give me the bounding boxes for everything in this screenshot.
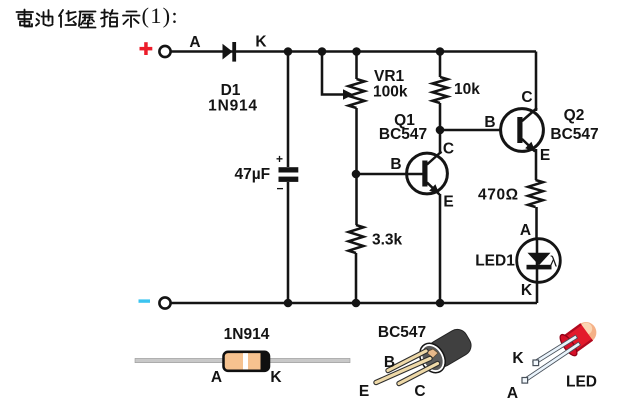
svg-text:D1: D1 xyxy=(221,82,241,99)
resistor 3.3k xyxy=(349,225,364,253)
junction node VR1 top xyxy=(352,47,361,56)
svg-text:B: B xyxy=(384,354,395,371)
resistor VR1 xyxy=(349,79,365,108)
svg-text:K: K xyxy=(512,350,524,367)
svg-text:A: A xyxy=(520,222,531,239)
junction node Q1 collector / Q2 base xyxy=(436,126,445,135)
svg-text:47µF: 47µF xyxy=(235,166,271,183)
LED1 xyxy=(517,239,561,283)
junction node bottom Q1 emitter xyxy=(436,299,445,308)
junction node top cap xyxy=(284,47,293,56)
wire Q1 collector xyxy=(439,130,442,154)
svg-text:LED1: LED1 xyxy=(475,253,515,270)
svg-text:C: C xyxy=(414,383,425,400)
svg-text:100k: 100k xyxy=(373,84,408,101)
wire LED K to bottom rail xyxy=(536,281,539,303)
wire VR1 to 3.3k xyxy=(355,108,358,225)
plus terminal label xyxy=(140,42,153,55)
wire 470 to LED xyxy=(535,207,538,240)
svg-text:BC547: BC547 xyxy=(550,126,598,143)
wire right vertical to Q2 collector xyxy=(535,52,538,112)
wire node to Q2 base xyxy=(440,129,501,132)
svg-text:A: A xyxy=(211,369,222,386)
svg-text:B: B xyxy=(390,156,401,173)
photo 1N914 diode xyxy=(135,352,350,371)
wire 10k to node xyxy=(439,103,442,130)
wire 3.3k to bottom rail xyxy=(355,253,358,303)
svg-text:K: K xyxy=(521,282,533,299)
svg-text:VR1: VR1 xyxy=(374,68,405,85)
svg-text:3.3k: 3.3k xyxy=(372,232,403,249)
resistor 10k xyxy=(433,77,448,103)
svg-text:Q2: Q2 xyxy=(564,107,585,124)
svg-text:C: C xyxy=(521,89,532,106)
photo LED xyxy=(522,316,602,383)
minus terminal label xyxy=(139,299,151,302)
svg-text:E: E xyxy=(540,147,550,164)
diode D1 xyxy=(223,42,237,62)
capacitor C1 47uF xyxy=(279,167,299,182)
svg-text:BC547: BC547 xyxy=(378,324,426,341)
transistor Q2 xyxy=(501,108,544,152)
VR1 wiper arrowhead xyxy=(343,89,354,99)
svg-text:K: K xyxy=(255,34,267,51)
svg-text:10k: 10k xyxy=(454,81,480,98)
wire Q1 base xyxy=(356,173,423,176)
resistor 470ohm xyxy=(528,180,543,207)
wire top rail xyxy=(171,50,536,53)
terminal circle top xyxy=(159,46,170,57)
wire capacitor branch top xyxy=(287,52,290,168)
junction node bottom cap xyxy=(284,299,293,308)
terminal circle bottom xyxy=(159,297,170,308)
svg-text:470Ω: 470Ω xyxy=(478,187,519,204)
svg-text:1N914: 1N914 xyxy=(224,326,270,343)
title 電池低壓指示(1): xyxy=(17,10,140,28)
junction node wiper xyxy=(318,47,327,56)
svg-text:+: + xyxy=(276,152,283,166)
junction node Q1 base xyxy=(352,170,361,179)
svg-text:A: A xyxy=(507,385,518,402)
svg-text:E: E xyxy=(443,194,453,211)
transistor Q1 xyxy=(407,152,448,195)
wire VR1 branch xyxy=(355,52,358,80)
wire Q2 emitter to 470 xyxy=(535,149,538,180)
photo BC547 transistor xyxy=(376,324,476,384)
svg-text:1N914: 1N914 xyxy=(208,98,258,115)
junction node 10k top xyxy=(436,47,445,56)
svg-text:A: A xyxy=(189,34,200,51)
svg-text:C: C xyxy=(443,141,454,158)
svg-text:LED: LED xyxy=(566,374,597,391)
wire capacitor branch bottom xyxy=(287,182,290,303)
wire VR1 wiper xyxy=(322,52,344,95)
junction node bottom 3.3k xyxy=(352,299,361,308)
svg-text:K: K xyxy=(270,369,282,386)
svg-text:λ: λ xyxy=(550,254,558,271)
wire Q1 emitter xyxy=(439,194,442,303)
svg-text:E: E xyxy=(359,383,369,400)
wire bottom rail xyxy=(171,302,537,305)
wire 10k branch xyxy=(439,52,442,78)
svg-text:(1):: (1): xyxy=(142,3,179,28)
svg-text:−: − xyxy=(276,182,283,196)
svg-text:B: B xyxy=(484,114,495,131)
svg-text:BC547: BC547 xyxy=(379,126,427,143)
